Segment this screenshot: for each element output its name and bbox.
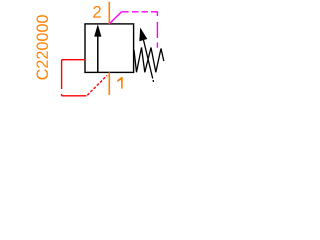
spring (zigzag) — [134, 48, 164, 73]
red drain wire: left vertical (upper dash) — [61, 60, 63, 89]
red drain wire: top horizontal — [62, 59, 86, 61]
flow path arrow stem — [97, 36, 99, 72]
port 2 stub (orange) — [108, 2, 110, 24]
port 1 label — [117, 77, 123, 89]
pilot line: horizontal dashed run — [122, 11, 158, 13]
pilot line: vertical dashed run — [156, 12, 158, 48]
port 2 label — [93, 6, 101, 18]
port 1 stub (orange) — [108, 72, 110, 95]
valve body (square) — [85, 24, 134, 73]
label C220000 (vertical part number) — [36, 15, 47, 79]
red drain wire: left vertical (lower dash) — [61, 94, 63, 96]
pilot line (magenta): diagonal from port 2 junction — [110, 12, 122, 24]
adjustment arrow shaft — [144, 40, 154, 82]
adjustment arrowhead — [139, 28, 147, 42]
flow path arrowhead — [94, 24, 101, 36]
red drain wire: bottom horizontal — [62, 95, 87, 97]
red drain wire: dashed diagonal to port 1 — [87, 76, 107, 96]
